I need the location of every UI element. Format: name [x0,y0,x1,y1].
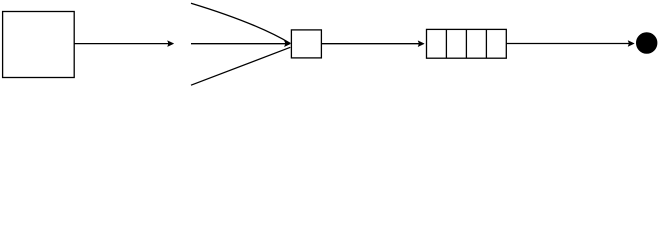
wire from queue to sink [506,43,629,45]
fan-in bottom line [191,47,290,85]
sink circle (filled) [637,33,657,53]
arrowhead A4 [628,41,634,47]
queue rectangle Q1 [427,29,507,58]
queue divider 1 [445,29,447,58]
wire from S1 to queue [321,43,419,45]
fan-in middle line [191,43,286,45]
queue divider 2 [465,29,467,58]
fan-in top line [191,3,290,43]
queue divider 3 [485,29,487,58]
source box B1 [3,12,75,78]
wire from B1 to fan [74,43,169,45]
merge square S1 [291,30,321,58]
arrowhead A3 [418,41,424,47]
arrowhead A1 [168,41,174,47]
arrowhead A2 at merge point [284,41,290,47]
